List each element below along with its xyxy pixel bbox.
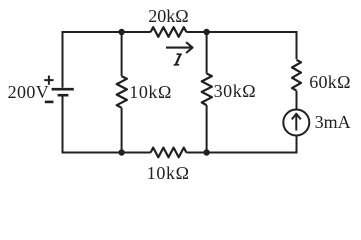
minus sign of source polarity — [45, 101, 54, 104]
junction dot: node top-left (10k branch / top wire) — [118, 29, 124, 35]
resistor 10kΩ (left vertical) — [117, 76, 127, 108]
junction dot: node bottom-left (10k branch / bottom wire) — [118, 149, 124, 155]
battery V1 top plate (+, long) — [52, 88, 74, 91]
plus sign of source polarity — [44, 76, 53, 85]
svg-text:10kΩ: 10kΩ — [147, 163, 190, 183]
svg-text:30kΩ: 30kΩ — [214, 81, 257, 101]
resistor 60kΩ (right vertical) — [292, 60, 301, 91]
wire 60k to current source — [296, 91, 298, 109]
svg-text:3mA: 3mA — [315, 112, 351, 132]
wire bottom-right: 10k bottom resistor to right branch corner — [186, 152, 296, 153]
svg-text:60kΩ: 60kΩ — [309, 72, 351, 92]
wire 10k branch lower lead — [121, 108, 123, 153]
wire current source to bottom wire — [296, 136, 298, 152]
wire 30k branch upper lead — [206, 32, 208, 74]
wire 10k branch upper lead — [121, 32, 123, 76]
wire bottom-left: bottom corner to 10k bottom resistor — [63, 152, 151, 153]
current direction arrow I (points right) — [166, 42, 193, 53]
junction dot: node bottom-right (30k branch / bottom wire) — [203, 149, 209, 155]
wire top-left: from source top corner to 20k resistor — [63, 32, 151, 33]
wire 60k upper lead — [296, 32, 298, 59]
resistor 20kΩ (top horizontal) — [151, 27, 187, 37]
resistor 10kΩ (bottom horizontal) — [151, 148, 187, 158]
label I (current) — [174, 54, 182, 65]
current source I1 3mA circle — [283, 110, 309, 136]
junction dot: node top-right (30k branch / top wire) — [203, 29, 209, 35]
battery V1 bottom plate (-, short) — [58, 94, 69, 97]
wire left branch lower: battery - plate down to bottom wire — [62, 97, 64, 153]
svg-text:10kΩ: 10kΩ — [129, 82, 172, 102]
current source arrow (points up) — [292, 114, 301, 131]
resistor 30kΩ (middle vertical) — [202, 74, 212, 106]
svg-text:200V: 200V — [8, 82, 50, 102]
wire left branch upper: top wire down to battery + plate — [62, 32, 64, 88]
wire top-right: from 20k resistor to right branch corner — [186, 32, 296, 33]
svg-text:20kΩ: 20kΩ — [148, 6, 188, 26]
wire 30k branch lower lead — [206, 105, 208, 152]
